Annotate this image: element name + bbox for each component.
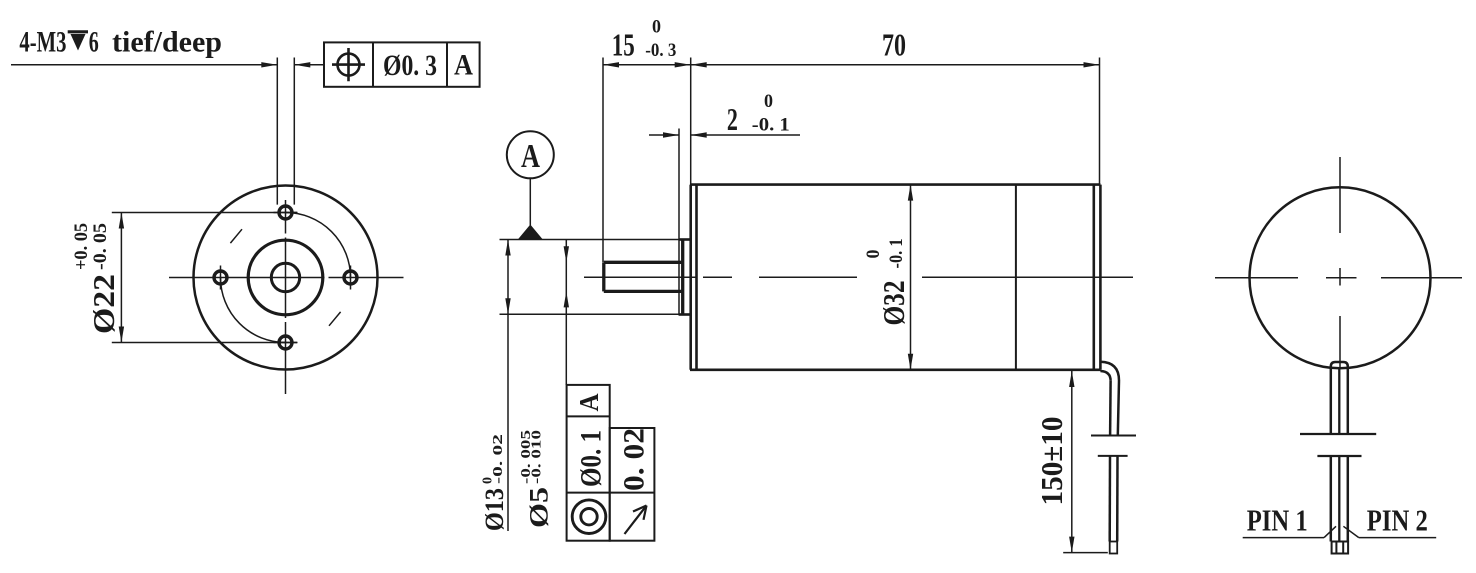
rear pin divider right — [1342, 542, 1344, 554]
Ø22 dimension text (rotated) — [71, 223, 121, 334]
bolt circle arc NE — [286, 213, 351, 278]
dim 70 arrow right — [1084, 62, 1100, 67]
svg-text:A: A — [454, 49, 473, 82]
dim 15 arrow right — [675, 62, 691, 67]
svg-text:15: 15 — [612, 27, 635, 63]
Ø13 extension line bottom — [500, 313, 688, 315]
front view vertical centerline — [285, 200, 287, 394]
shaft bottom line — [604, 290, 683, 293]
svg-text:tief/deep: tief/deep — [112, 26, 222, 59]
concentricity tolerance frame — [567, 385, 610, 541]
svg-text:150±10: 150±10 — [1034, 417, 1069, 506]
svg-text:Ø13: Ø13 — [480, 488, 509, 531]
runout tolerance frame — [610, 428, 655, 541]
svg-text:-0. 1: -0. 1 — [752, 115, 790, 136]
wire break tick lower — [1098, 455, 1128, 457]
svg-text:-0. 010: -0. 010 — [530, 430, 545, 484]
mounting hole left M3 — [214, 271, 227, 284]
front view outer circle (motor body Ø32) — [194, 186, 378, 370]
svg-text:6: 6 — [89, 26, 99, 59]
shaft tip line — [602, 262, 605, 291]
leader line from position frame — [294, 64, 324, 66]
hole tick left — [220, 266, 222, 290]
svg-text:A: A — [574, 393, 604, 411]
dimension line 15 — [603, 64, 691, 66]
rear wire outline upper — [1331, 362, 1348, 434]
dimension line 2 left tail — [649, 134, 679, 136]
leader line from thread note — [11, 64, 277, 66]
rear view horizontal centerline — [1215, 277, 1462, 279]
Ø13 extension line top — [500, 239, 688, 241]
M3 hole extension line right — [293, 58, 295, 205]
side view centerline — [584, 276, 1133, 278]
rear wire break tick lower — [1317, 455, 1361, 457]
Ø32 dimension text (rotated) — [863, 239, 911, 326]
motor body front face line 2 — [695, 185, 698, 370]
svg-text:A: A — [521, 138, 540, 175]
svg-text:0: 0 — [652, 17, 661, 38]
datum A triangle — [518, 225, 543, 240]
svg-text:0. 02: 0. 02 — [618, 428, 651, 491]
concentricity symbol inner circle — [581, 509, 597, 525]
front view horizontal centerline — [169, 277, 404, 279]
PIN 2 leader diagonal — [1343, 526, 1358, 537]
motor body rear face line 1 — [1093, 185, 1096, 370]
Ø5 dimension text (rotated) — [519, 430, 554, 528]
dim 150 bottom extension — [1063, 552, 1108, 554]
Ø5 dimension line — [565, 240, 567, 385]
mounting hole bottom M3 — [279, 336, 292, 349]
wire end pin side view — [1110, 542, 1118, 554]
bolt circle dash NW — [230, 229, 242, 243]
svg-text:70: 70 — [882, 27, 906, 63]
concentricity frame datum letter A (rotated) — [574, 393, 604, 411]
motor body rear cap line — [1015, 185, 1017, 370]
Ø5 arrow up to shaft bottom — [564, 291, 569, 307]
mounting hole right M3 — [344, 271, 357, 284]
lead wire outer curve — [1100, 362, 1119, 381]
depth symbol bar — [68, 30, 88, 33]
front view shaft circle (Ø5) — [271, 263, 299, 291]
depth symbol triangle — [71, 34, 86, 51]
dim 150 arrow down — [1069, 537, 1074, 553]
shaft top line — [604, 261, 683, 264]
bolt circle arc SW — [221, 278, 286, 343]
lead wire outer upper segment — [1118, 381, 1119, 436]
Ø13 arrow up — [505, 240, 510, 256]
Ø5 arrow down to shaft top — [564, 246, 569, 262]
svg-text:-0. 3: -0. 3 — [645, 40, 676, 61]
lead wire inner upper segment — [1109, 381, 1112, 436]
leader arrow left — [294, 62, 310, 67]
boss bottom edge — [679, 313, 691, 316]
concentricity symbol outer circle — [572, 500, 606, 534]
extension line body front above — [690, 58, 692, 185]
lead wire inner lower segment — [1108, 456, 1111, 542]
position tolerance frame — [324, 42, 480, 86]
Ø22 dimension line — [120, 213, 122, 343]
Ø13 arrow down — [505, 298, 510, 314]
Ø32 dimension line — [910, 185, 912, 370]
rear wire centerline upper — [1338, 367, 1340, 434]
svg-text:-0. 02: -0. 02 — [491, 434, 506, 484]
svg-text:Ø22: Ø22 — [86, 274, 121, 334]
dimension line 70 — [691, 64, 1100, 66]
hole tick bottom — [274, 342, 298, 344]
Ø13 dimension line — [507, 240, 509, 532]
extension line shaft tip — [602, 58, 604, 263]
leader arrow right — [261, 62, 277, 67]
position symbol circle — [338, 54, 360, 76]
Ø13 dimension text (rotated) — [480, 434, 509, 531]
wire break tick upper — [1091, 435, 1136, 437]
svg-text:0: 0 — [863, 250, 884, 259]
svg-text:+0. 05: +0. 05 — [71, 223, 92, 270]
motor body front face line 1 — [689, 185, 692, 370]
concentricity tolerance value (rotated) — [575, 430, 608, 487]
lead wire inner curve — [1100, 371, 1110, 381]
rear pin connector — [1332, 542, 1349, 554]
svg-text:Ø5: Ø5 — [525, 487, 554, 528]
hole tick right — [350, 266, 352, 290]
position symbol cross — [332, 48, 365, 81]
svg-text:Ø0. 1: Ø0. 1 — [575, 430, 608, 487]
motor body top edge — [690, 183, 1101, 186]
svg-text:PIN 2: PIN 2 — [1367, 503, 1428, 538]
dim 150 line — [1071, 371, 1073, 553]
runout symbol arrowhead — [633, 506, 647, 520]
dim 150 arrow up — [1069, 371, 1074, 387]
mounting hole top M3 — [279, 206, 292, 219]
svg-text:Ø32: Ø32 — [876, 281, 911, 326]
svg-text:-0. 1: -0. 1 — [886, 239, 907, 269]
PIN 1 leader diagonal — [1324, 526, 1336, 537]
svg-text:0: 0 — [764, 91, 773, 112]
datum A circle — [507, 131, 554, 178]
svg-text:Ø0. 3: Ø0. 3 — [383, 49, 437, 82]
runout tolerance value (rotated) — [618, 428, 651, 491]
dim 150 text (rotated) — [1034, 417, 1069, 506]
lead wire outer lower segment — [1116, 456, 1119, 542]
rear wire right lower segment — [1347, 456, 1350, 542]
Ø32 arrow down — [908, 354, 913, 370]
M3 hole extension line left — [276, 58, 278, 205]
Ø22 dimension arrow up — [119, 213, 124, 229]
rear view circle — [1250, 187, 1431, 368]
motor body bottom edge — [690, 368, 1101, 371]
datum A stem — [529, 178, 531, 226]
motor body rear face line 2 — [1099, 185, 1102, 370]
svg-text:4-M3: 4-M3 — [19, 26, 66, 59]
extension line body rear above — [1099, 58, 1101, 185]
Ø22 extension line bottom — [112, 342, 297, 344]
svg-text:-0. 05: -0. 05 — [90, 223, 111, 270]
boss top edge — [679, 238, 691, 241]
Ø22 extension line top — [112, 212, 297, 214]
bolt circle dash SE — [329, 312, 341, 326]
svg-text:2: 2 — [727, 101, 738, 137]
Ø32 arrow up — [908, 185, 913, 201]
Ø22 dimension arrow down — [119, 327, 124, 343]
dim 2 arrow right — [691, 132, 707, 137]
dim 2 arrow left — [663, 132, 679, 137]
dim 15 arrow left — [603, 62, 619, 67]
dimension line 2 right tail — [691, 134, 800, 136]
svg-text:PIN 1: PIN 1 — [1247, 503, 1308, 538]
PIN 1 leader underline — [1243, 537, 1324, 539]
front view pilot boss circle (Ø13) — [248, 240, 323, 315]
rear wire centerline lower — [1338, 456, 1340, 542]
rear pin divider left — [1335, 542, 1337, 554]
rear wire left lower segment — [1330, 456, 1333, 542]
PIN 2 leader underline — [1359, 537, 1436, 539]
hole tick top — [274, 212, 298, 214]
boss front face bold line — [681, 240, 684, 315]
runout symbol arrow line — [625, 506, 647, 535]
rear view vertical centerline — [1339, 157, 1341, 367]
extension line boss face — [678, 129, 680, 316]
rear wire break tick upper — [1300, 433, 1376, 435]
dim 70 arrow left — [691, 62, 707, 67]
